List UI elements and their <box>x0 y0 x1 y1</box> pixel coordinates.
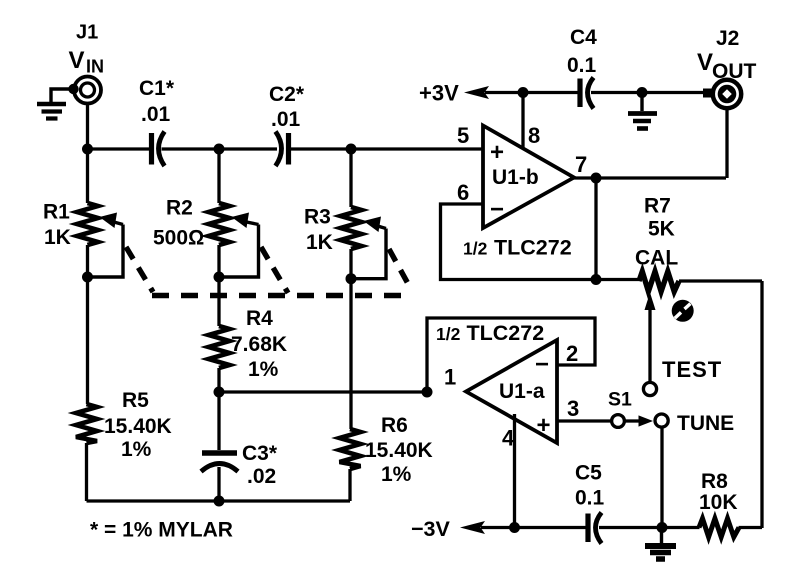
node dot +3V / ground <box>637 87 648 98</box>
svg-text:1K: 1K <box>306 231 333 254</box>
svg-text:+3V: +3V <box>419 81 459 106</box>
note 1% mylar <box>90 519 233 542</box>
+3V rail arrow <box>419 81 578 106</box>
svg-text:1K: 1K <box>44 226 71 249</box>
wire U1-a pin 2 feedback <box>427 318 595 392</box>
capacitor C3 <box>201 392 278 501</box>
TEST contact <box>643 357 722 396</box>
resistor R4 <box>209 307 288 392</box>
svg-text:C3*: C3* <box>242 442 278 465</box>
svg-text:U1-b: U1-b <box>492 166 539 189</box>
svg-text:C4: C4 <box>570 26 597 49</box>
svg-text:J1: J1 <box>76 22 98 44</box>
capacitor C2 <box>269 83 305 166</box>
svg-text:1: 1 <box>444 365 456 390</box>
TUNE contact <box>655 412 734 435</box>
svg-text:1/2: 1/2 <box>436 324 461 344</box>
svg-text:R6: R6 <box>381 414 408 437</box>
op-amp U1-a <box>436 321 579 451</box>
potentiometer R1 <box>43 149 123 404</box>
node dot TUNE / ground rail <box>657 522 668 533</box>
ground (J1) <box>37 89 73 119</box>
svg-text:15.40K: 15.40K <box>104 415 172 438</box>
svg-text:5K: 5K <box>648 218 675 241</box>
wire J2 down to pin7 line <box>725 108 728 178</box>
svg-text:TEST: TEST <box>662 357 722 382</box>
svg-text:−: − <box>535 351 549 378</box>
resistor R6 <box>340 414 433 501</box>
potentiometer R3 <box>304 149 386 429</box>
wire pin7 node down to feedback node <box>594 178 597 280</box>
svg-text:0.1: 0.1 <box>575 487 605 510</box>
svg-text:7.68K: 7.68K <box>231 333 287 356</box>
svg-text:C1*: C1* <box>139 77 175 100</box>
svg-text:.02: .02 <box>247 465 276 488</box>
svg-text:.01: .01 <box>271 108 301 131</box>
svg-text:500Ω: 500Ω <box>153 227 204 250</box>
svg-text:R1: R1 <box>43 201 70 224</box>
svg-text:TLC272: TLC272 <box>494 236 572 260</box>
wire U1-b pin 8 <box>521 92 524 149</box>
svg-text:V: V <box>697 49 713 76</box>
svg-text:.01: .01 <box>141 103 171 126</box>
svg-text:8: 8 <box>528 123 540 148</box>
ground (output) <box>628 93 657 129</box>
svg-text:−: − <box>490 196 504 223</box>
node dot R4 bottom <box>214 387 225 398</box>
svg-text:TLC272: TLC272 <box>467 321 545 345</box>
dashed gang bus <box>152 293 412 298</box>
svg-text:R4: R4 <box>246 307 273 330</box>
node dot bottom rail / C3 <box>214 496 225 507</box>
connector J2 <box>697 27 757 108</box>
svg-text:3: 3 <box>567 396 579 421</box>
svg-text:10K: 10K <box>699 491 738 514</box>
svg-text:1%: 1% <box>121 438 152 461</box>
wire C1 to C2 <box>162 147 278 150</box>
svg-text:C2*: C2* <box>269 83 305 106</box>
node dot R1 bottom <box>82 272 93 283</box>
svg-text:6: 6 <box>457 180 469 205</box>
wire U1-a pin 4 <box>513 414 516 528</box>
svg-text:−3V: −3V <box>411 517 451 541</box>
wire C2 to U1-b pin 5 <box>291 147 483 150</box>
capacitor C5 <box>575 462 605 544</box>
resistor R8 <box>699 470 762 537</box>
svg-text:+: + <box>537 412 551 439</box>
wire U1-a pin 3 to S1 <box>557 419 612 422</box>
dashed gang link R2 wiper <box>261 247 288 293</box>
trimmer screw <box>672 300 694 322</box>
switch S1 <box>608 389 653 428</box>
svg-text:* = 1% MYLAR: * = 1% MYLAR <box>90 519 233 542</box>
svg-text:7: 7 <box>575 152 587 177</box>
svg-text:R2: R2 <box>166 197 193 220</box>
node dot R3 bottom <box>346 273 357 284</box>
svg-text:CAL: CAL <box>635 247 678 270</box>
svg-text:1%: 1% <box>381 463 412 486</box>
wire bottom-left rail <box>87 499 351 502</box>
connector J1 <box>68 22 104 104</box>
wire top rail left <box>88 147 150 150</box>
node dot pin4 / -3V rail <box>509 522 520 533</box>
resistor R5 <box>76 389 172 501</box>
svg-text:IN: IN <box>86 57 104 77</box>
wire C5 to R8 <box>599 526 700 529</box>
svg-text:R5: R5 <box>122 389 149 412</box>
node dot U1-a input <box>422 387 433 398</box>
potentiometer R7 <box>596 195 762 383</box>
wire U1-b output pin 7 <box>573 176 726 179</box>
dashed gang link R3 wiper <box>389 249 412 291</box>
svg-text:15.40K: 15.40K <box>365 439 433 462</box>
wire R4 node to U1-a input node <box>219 390 427 393</box>
svg-text:1%: 1% <box>248 358 279 381</box>
dashed gang link R1 wiper <box>126 247 153 292</box>
svg-text:C5: C5 <box>575 462 602 485</box>
op-amp U1-b <box>457 123 587 260</box>
svg-text:TUNE: TUNE <box>677 412 734 435</box>
svg-text:R8: R8 <box>701 470 728 493</box>
capacitor C1 <box>139 77 175 166</box>
node dot at J1 column / top rail <box>82 144 93 155</box>
node dot at R2 column / top rail <box>214 144 225 155</box>
svg-text:1/2: 1/2 <box>463 239 488 259</box>
potentiometer R2 <box>153 149 259 326</box>
wire right edge R7 to R8 <box>760 281 763 528</box>
svg-text:V: V <box>69 47 85 74</box>
svg-text:0.1: 0.1 <box>567 54 597 77</box>
wire C4 to J2 <box>591 91 711 94</box>
svg-text:S1: S1 <box>608 389 632 411</box>
svg-text:OUT: OUT <box>712 60 757 83</box>
svg-text:2: 2 <box>566 341 578 366</box>
svg-text:+: + <box>490 139 504 166</box>
capacitor C4 <box>567 26 597 109</box>
wire U1-b pin 6 feedback <box>441 204 597 280</box>
-3V rail arrow <box>411 517 586 541</box>
svg-text:5: 5 <box>457 123 469 148</box>
wire TUNE to ground rail <box>660 428 663 528</box>
svg-text:R7: R7 <box>644 195 671 218</box>
ground (tune) <box>645 528 676 560</box>
node dot at R3 column / top rail <box>346 144 357 155</box>
wire J1 to top rail <box>86 104 89 150</box>
svg-text:R3: R3 <box>304 206 331 229</box>
svg-text:J2: J2 <box>716 27 739 50</box>
node dot pin8 / +3V rail <box>518 87 529 98</box>
node dot R2 bottom <box>214 272 225 283</box>
node dot feedback / R7 <box>591 274 602 285</box>
node dot pin 7 <box>591 173 602 184</box>
svg-text:U1-a: U1-a <box>499 380 545 403</box>
